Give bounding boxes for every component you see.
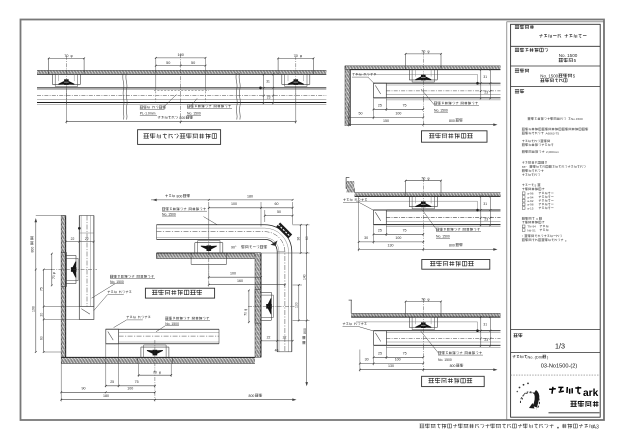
D3 right side 800 arrow down <box>306 321 308 386</box>
svg-text:130: 130 <box>388 364 394 368</box>
D4 bottom dims 25 75 30 100 130 800 <box>373 225 375 236</box>
svg-text:1/3: 1/3 <box>555 342 565 351</box>
D4 handrail lines with end cap <box>356 200 478 202</box>
company name Atlas ark Co Ltd <box>549 387 581 394</box>
D3 bottom rail (horizontal) with end cap <box>106 343 219 345</box>
svg-text:800: 800 <box>177 195 183 199</box>
svg-text:180: 180 <box>247 195 253 199</box>
svg-text:190: 190 <box>32 306 36 312</box>
svg-text:No. (DXF: No. (DXF <box>528 354 545 359</box>
D1 handrail lines <box>37 87 326 89</box>
D4 label handrail type No.1500 <box>422 209 436 229</box>
D5 label handrail type No.1500 <box>421 331 438 353</box>
svg-text:130: 130 <box>388 244 394 248</box>
svg-text:22: 22 <box>71 237 75 241</box>
title row: specifications header <box>515 89 524 93</box>
svg-text:100: 100 <box>127 387 133 391</box>
D5 right side dims 31 23 <box>480 317 482 346</box>
D1 right side dims 31 23 <box>263 74 265 103</box>
svg-text:50: 50 <box>277 210 281 214</box>
D5 bottom dims 25 75 30 100 130 800 <box>373 346 375 359</box>
svg-text:No.1500: No.1500 <box>571 117 583 121</box>
svg-text:22: 22 <box>283 336 287 340</box>
svg-text:75: 75 <box>403 351 407 355</box>
D3 left rail (vertical) <box>78 216 80 307</box>
title row: drawing name No.1500 round washer 5 <box>515 69 529 73</box>
D5 title box: end part plan detail <box>422 376 485 386</box>
svg-text:20: 20 <box>39 313 43 317</box>
svg-text:31: 31 <box>483 75 487 79</box>
D5 end cap label <box>343 323 367 326</box>
svg-text:800: 800 <box>30 247 34 253</box>
svg-text:25: 25 <box>378 228 382 232</box>
title row: scale 1/3 <box>514 333 523 337</box>
svg-text:40: 40 <box>275 349 279 353</box>
svg-text:25: 25 <box>378 104 382 108</box>
svg-text:22: 22 <box>85 237 89 241</box>
D3 title box: in/out corner plan detail <box>145 288 214 298</box>
svg-text:140: 140 <box>302 274 306 280</box>
svg-text:75: 75 <box>39 287 43 291</box>
D2 handrail lines with end cap <box>355 73 478 75</box>
svg-text:800: 800 <box>303 328 307 334</box>
D3 top handrail with 90deg corner curve <box>157 239 278 351</box>
svg-text:Nd-51: Nd-51 <box>527 228 536 232</box>
D1 label straight joint PL-1.0mm <box>140 106 166 109</box>
svg-text:100: 100 <box>230 272 236 276</box>
D3 label handrail No.1500 (left rail) <box>110 275 154 278</box>
svg-text:100: 100 <box>294 302 298 308</box>
svg-text:5: 5 <box>574 58 577 63</box>
spec text block <box>528 117 571 120</box>
svg-text:100: 100 <box>395 112 401 116</box>
D2 label handrail type No.1500 <box>421 89 434 105</box>
D3 label end cap (bottom rail) <box>127 316 151 319</box>
svg-text:50: 50 <box>359 112 363 116</box>
svg-text:36: 36 <box>296 237 300 241</box>
svg-text:25: 25 <box>378 351 382 355</box>
D2 title box: end part plan detail <box>422 131 488 142</box>
D3 left vertical dim chain 800 / 190 / 75 20 60 <box>35 220 37 353</box>
svg-text:50: 50 <box>191 61 195 65</box>
svg-text:A6063-T5: A6063-T5 <box>546 132 560 136</box>
D1 wall (hatched) <box>37 70 326 74</box>
svg-text:31: 31 <box>483 323 487 327</box>
title row: product category <box>515 25 534 29</box>
D3 left rail bracket 70phi <box>66 255 76 257</box>
D3 right side dim chain 60 140 100 800 <box>293 224 310 226</box>
svg-text:150: 150 <box>383 119 389 123</box>
D3 bottom wall (hatched) <box>61 357 255 363</box>
D2 end cap label <box>352 73 376 76</box>
svg-text:2,000mm: 2,000mm <box>546 150 559 154</box>
D3 label handrail type No.1500 (top) <box>162 207 206 210</box>
svg-text:90°: 90° <box>231 246 237 250</box>
svg-text:70 φ: 70 φ <box>52 271 56 279</box>
svg-text:23: 23 <box>484 91 488 95</box>
D3 left wall (hatched) <box>61 216 65 358</box>
svg-text:ark: ark <box>583 388 599 399</box>
svg-text:A3: A3 <box>593 424 599 430</box>
svg-text:800: 800 <box>449 119 455 123</box>
svg-text:23: 23 <box>267 95 271 99</box>
svg-text:No. 1500: No. 1500 <box>165 322 179 326</box>
svg-text:75: 75 <box>403 228 407 232</box>
company logo swirl mark <box>520 393 539 409</box>
D1 label handrail type No.1500 <box>187 105 231 108</box>
D4 wall (hatched) with left step <box>355 193 501 197</box>
svg-text:3: 3 <box>536 217 538 221</box>
D2 wall (hatched) <box>345 66 501 70</box>
svg-text:60: 60 <box>39 336 43 340</box>
svg-text:100: 100 <box>395 358 401 362</box>
svg-text:100: 100 <box>395 236 401 240</box>
svg-text:75: 75 <box>403 104 407 108</box>
D1 break marks <box>123 73 124 119</box>
svg-text:No. 1500-: No. 1500- <box>540 73 560 78</box>
svg-text:PL-1.0mm: PL-1.0mm <box>140 112 156 116</box>
title block row separators <box>511 45 601 47</box>
title row: file name 03-No1500-(2) <box>513 355 528 358</box>
D1 bottom dim bracket-to-bracket 800 <box>158 116 178 119</box>
svg-text:No. 1500: No. 1500 <box>162 212 176 216</box>
svg-text:31: 31 <box>483 202 487 206</box>
D2 left wall return strip <box>345 70 350 126</box>
svg-text:25: 25 <box>110 380 114 384</box>
svg-text:No. 1500: No. 1500 <box>434 108 448 112</box>
svg-text:800: 800 <box>249 394 255 398</box>
D4 end cap label <box>343 198 367 201</box>
D3 45deg joint cover on curve <box>276 223 292 239</box>
svg-text:22: 22 <box>267 336 271 340</box>
title row: product number / name No.1500 <box>515 48 548 52</box>
svg-text:30: 30 <box>365 358 369 362</box>
svg-text:No. 1500: No. 1500 <box>438 358 452 362</box>
svg-text:03-No1500-(2): 03-No1500-(2) <box>541 364 578 370</box>
svg-text:a-15: a-15 <box>527 206 533 210</box>
D3 right rail bracket 70phi <box>261 291 271 293</box>
svg-text:No. 1500: No. 1500 <box>110 280 124 284</box>
D5 wall (hatched) with left return <box>351 313 500 317</box>
svg-text:800: 800 <box>450 364 456 368</box>
svg-text:800: 800 <box>449 244 455 248</box>
svg-text:23: 23 <box>484 338 488 342</box>
D3 bottom dims 25 75 90 100 180 800 <box>105 344 107 388</box>
D2 right side dims 31 23 <box>480 70 482 99</box>
D3 left rail end cap <box>79 307 94 320</box>
svg-text:50: 50 <box>166 61 170 65</box>
bottom note text <box>420 424 593 429</box>
svg-text:60: 60 <box>305 236 309 240</box>
D1 joint hidden edges (dashed) <box>154 90 209 92</box>
svg-text:800: 800 <box>179 116 185 120</box>
D3 label handrail No.1500 (bottom rail) <box>165 317 209 320</box>
D3 top wall (hatched) <box>157 253 262 259</box>
D3 top dims 800 180 100 60 50 <box>165 194 174 197</box>
D4 right side dims 31 23 <box>480 196 482 225</box>
D2 bottom dims 25 75 50 100 150 800 <box>373 98 375 111</box>
svg-text:No. 1500: No. 1500 <box>187 112 201 116</box>
svg-text:30: 30 <box>364 236 368 240</box>
svg-text:65°: 65° <box>522 165 527 169</box>
D3 top rail bracket (wall below) <box>194 243 196 253</box>
svg-text:φ: φ <box>159 371 161 375</box>
svg-text:75: 75 <box>135 380 139 384</box>
D3 right wall (hatched) <box>255 253 261 357</box>
svg-text:31: 31 <box>266 80 270 84</box>
svg-text:70 φ: 70 φ <box>243 308 247 316</box>
D3 bottom rail bracket 70phi <box>140 347 142 357</box>
svg-text:5: 5 <box>535 183 537 187</box>
svg-text:100: 100 <box>231 202 237 206</box>
svg-text:90: 90 <box>82 387 86 391</box>
svg-text:23: 23 <box>484 217 488 221</box>
svg-text:60: 60 <box>275 202 279 206</box>
D3 label end cap (left rail) <box>108 291 132 294</box>
title block outer border <box>507 22 604 420</box>
title block inner border <box>511 24 601 417</box>
svg-text:180: 180 <box>103 394 109 398</box>
D3 right rail bottom cut end <box>277 351 292 353</box>
D4 title box: end part plan detail <box>422 260 490 270</box>
D5 handrail lines with end cap <box>356 321 478 323</box>
D1 title box: straight joint part plan detail <box>138 130 221 145</box>
svg-text:160: 160 <box>237 279 243 283</box>
svg-text:No. 1500: No. 1500 <box>436 235 450 239</box>
